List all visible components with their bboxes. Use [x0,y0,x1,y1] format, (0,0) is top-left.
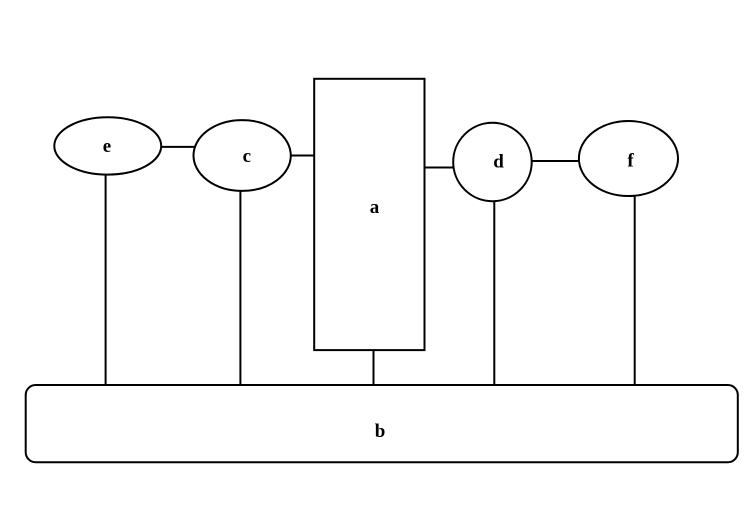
svg-text:a: a [370,197,380,218]
svg-text:d: d [493,151,504,172]
svg-text:e: e [103,136,111,157]
svg-text:c: c [243,146,251,167]
svg-text:b: b [375,421,386,442]
svg-text:f: f [627,150,634,171]
